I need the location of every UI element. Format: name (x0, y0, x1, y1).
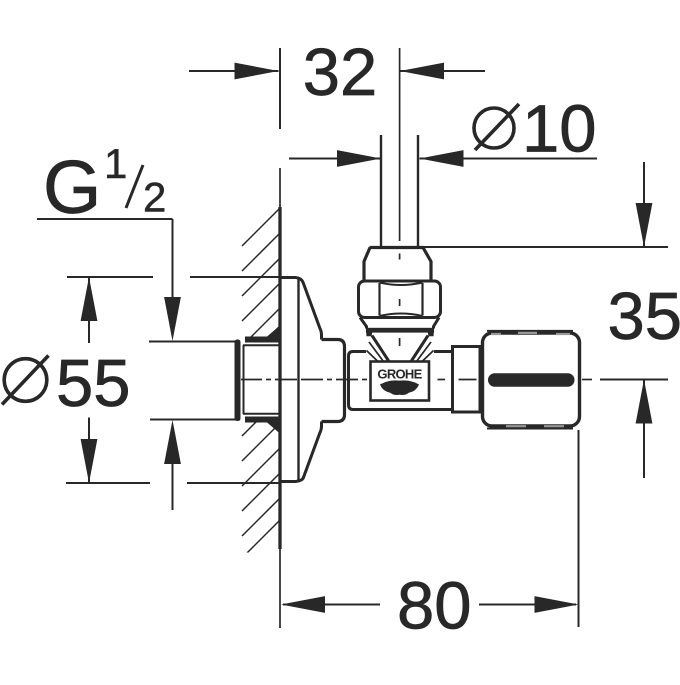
inlet pipe (380, 135, 382, 246)
svg-text:32: 32 (303, 35, 378, 110)
thread label G 1/2 (37, 219, 240, 510)
horizontal centerline (241, 379, 592, 381)
svg-text:G: G (43, 145, 101, 229)
svg-text:GROHE: GROHE (377, 366, 422, 381)
knob corner marks (487, 330, 573, 332)
handle knob (483, 333, 580, 426)
escutcheon flange (281, 278, 322, 482)
compression nut (359, 281, 441, 318)
bonnet collar (453, 347, 481, 413)
svg-text:80: 80 (397, 569, 472, 644)
compression outlet cap (364, 248, 431, 282)
svg-text:35: 35 (608, 279, 680, 354)
vertical centerline (399, 48, 401, 346)
dimension diam 10 (289, 158, 597, 160)
dimension 80 (283, 430, 579, 627)
svg-text:1: 1 (104, 140, 127, 187)
GROHE label box (371, 362, 430, 401)
svg-text:55: 55 (56, 346, 131, 421)
svg-text:2: 2 (143, 174, 166, 221)
dimension 32 (189, 48, 485, 129)
hub cone slants (372, 336, 389, 362)
svg-text:10: 10 (522, 92, 597, 167)
flange lip (322, 340, 345, 422)
GROHE logo mark (380, 380, 419, 395)
dimension 35 (423, 162, 669, 478)
nut lower ring (360, 318, 439, 329)
dimension diam 55 (66, 277, 279, 483)
hub bar (366, 328, 434, 333)
valve body (349, 352, 452, 410)
wall (279, 168, 281, 628)
knob grip band (488, 373, 575, 386)
wall hatching (242, 208, 280, 556)
threaded nipple G1/2 (235, 325, 282, 435)
